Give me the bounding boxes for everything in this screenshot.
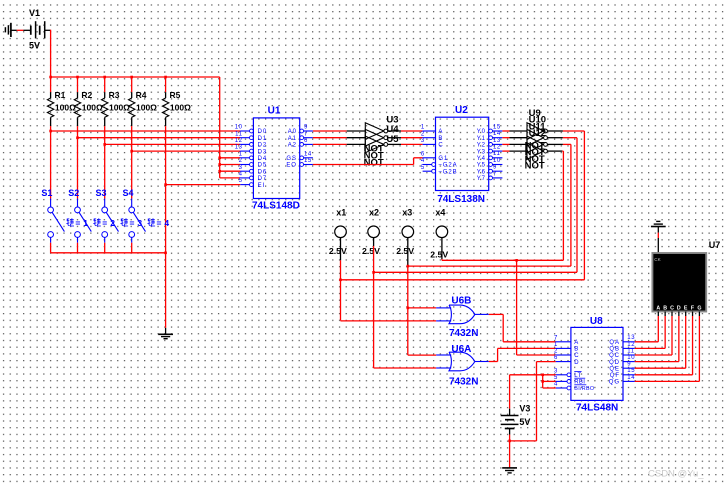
svg-text:QF: QF xyxy=(610,373,620,379)
U8 pin 1 (B) xyxy=(556,347,571,349)
U8 pin 4 (BI/RBO) xyxy=(556,387,567,389)
svg-text:S3: S3 xyxy=(96,188,107,198)
U8 pin 5 (RBI) xyxy=(556,380,567,382)
wire U1 EO toward U2 G1 xyxy=(313,164,414,166)
svg-text:100Ω: 100Ω xyxy=(82,102,103,112)
svg-text:100Ω: 100Ω xyxy=(109,102,130,112)
wire segment F vertical xyxy=(692,316,694,375)
U7 pin B stub xyxy=(664,312,666,317)
wire U2 Y3 out (red) xyxy=(502,150,509,152)
wire into NOT U5 (black) xyxy=(347,143,366,145)
switch S3 xyxy=(104,199,106,207)
svg-text:2.5V: 2.5V xyxy=(396,246,414,256)
wire node R4/S4 to U1 D3 xyxy=(132,150,241,152)
svg-text:GS: GS xyxy=(286,156,296,162)
key label glyph of S2 xyxy=(93,218,101,226)
svg-text:BI/RBO: BI/RBO xyxy=(574,386,594,392)
wire V3 minus to ground xyxy=(509,435,511,468)
wire Y2 net vertical down xyxy=(570,144,572,266)
svg-text:7: 7 xyxy=(304,131,308,137)
svg-text:D1: D1 xyxy=(258,136,267,142)
svg-text:9: 9 xyxy=(493,165,497,171)
svg-text:10: 10 xyxy=(235,125,243,131)
U1 pin 9 (A0) xyxy=(300,129,304,133)
svg-text:x3: x3 xyxy=(402,208,412,218)
svg-text:100Ω: 100Ω xyxy=(55,102,76,112)
key label glyph of S3 xyxy=(121,218,129,226)
svg-text:9: 9 xyxy=(627,362,631,368)
switch S1 xyxy=(50,199,52,207)
U7 pin E stub xyxy=(685,312,687,317)
U1 pin 11 (D1) xyxy=(240,137,249,139)
svg-text:NOT: NOT xyxy=(364,158,384,169)
svg-text:5V: 5V xyxy=(29,41,40,51)
wire U2 Y2 out (red) xyxy=(502,143,509,145)
svg-text:74LS138N: 74LS138N xyxy=(437,194,485,205)
wire U8 QD to U7 segment D xyxy=(635,361,679,363)
wire U2 Y1 out (red) xyxy=(502,137,509,139)
U2 pin 1 (A) xyxy=(423,130,436,132)
svg-text:Y2: Y2 xyxy=(477,143,486,149)
wire x2 net to U6A input B xyxy=(374,367,437,369)
junction switch bus at ground column xyxy=(164,252,167,255)
junction x1 net xyxy=(339,279,342,282)
svg-text:15: 15 xyxy=(627,368,635,374)
wire into U8 BI/RBO xyxy=(543,387,556,389)
U1 pin 7 (A1) xyxy=(300,136,304,140)
svg-text:12: 12 xyxy=(627,342,635,348)
svg-text:=: = xyxy=(157,218,162,228)
wire into V1 minus terminal xyxy=(23,29,31,31)
U1 pin 15 (EO) xyxy=(300,163,304,167)
U8 pin 7 (A) xyxy=(556,341,571,343)
probe x3 xyxy=(402,226,414,238)
svg-text:1: 1 xyxy=(554,342,558,348)
svg-text:11: 11 xyxy=(493,151,500,157)
U8 pin 13 (QA) xyxy=(623,341,635,343)
ground GND1 (left of V1, rotated) xyxy=(4,27,6,32)
svg-text:A0: A0 xyxy=(288,129,297,135)
junction top bus at R5 xyxy=(164,76,167,79)
svg-text:R2: R2 xyxy=(81,90,92,100)
junction RBI branch xyxy=(541,380,544,383)
wire into NOT U11 xyxy=(510,143,528,145)
wire R3 bottom to switch S3 xyxy=(104,126,106,198)
wire vertical feed to U1 D4-D7 xyxy=(219,77,221,178)
svg-text:QC: QC xyxy=(609,353,620,359)
svg-text:EO: EO xyxy=(286,163,296,169)
svg-text:QA: QA xyxy=(609,340,619,346)
junction +5V feed row D5 xyxy=(218,163,221,166)
junction top bus xyxy=(76,76,79,79)
wire U8 QE to U7 segment E xyxy=(635,367,686,369)
junction top bus xyxy=(103,76,106,79)
svg-text:=: = xyxy=(102,218,107,228)
inverter U4 (NOT gate) xyxy=(365,129,384,146)
svg-text:B: B xyxy=(438,136,443,142)
U2 pin 4 (~G2A) xyxy=(423,164,432,166)
wire +5V feed to U1 D7 xyxy=(220,177,241,179)
wire U6B output down xyxy=(502,314,504,341)
switch S4 xyxy=(131,199,133,207)
svg-text:x4: x4 xyxy=(435,208,445,218)
wire V3 plus up xyxy=(509,375,511,409)
svg-text:13: 13 xyxy=(235,145,243,151)
svg-text:A: A xyxy=(438,129,443,135)
svg-text:100Ω: 100Ω xyxy=(136,102,157,112)
resistor R3 xyxy=(104,77,106,92)
junction top bus xyxy=(130,76,133,79)
svg-text:9: 9 xyxy=(304,125,308,131)
svg-text:7: 7 xyxy=(554,335,558,341)
inverter U11 (NOT gate) xyxy=(527,136,544,153)
wire node R1/S1 to U1 D0 xyxy=(51,130,241,132)
wire NOT U11 out xyxy=(547,143,563,145)
wire segment C vertical xyxy=(671,316,673,355)
wire probe x1 lead (black) xyxy=(340,238,342,261)
svg-text:x1: x1 xyxy=(336,208,346,218)
svg-text:2: 2 xyxy=(554,349,558,355)
svg-text:14: 14 xyxy=(493,131,501,137)
wire U8 D stub wire xyxy=(537,361,556,363)
svg-text:QG: QG xyxy=(609,380,620,386)
U8 pin 12 (QB) xyxy=(623,347,635,349)
wire into U8 RBI xyxy=(543,380,556,382)
junction EI net at ground column xyxy=(164,183,167,186)
wire U2 Y0 out (red) xyxy=(502,130,509,132)
svg-text:D7: D7 xyxy=(258,176,267,182)
svg-text:11: 11 xyxy=(235,131,242,137)
ground GND2 (below switches) xyxy=(165,328,167,334)
svg-text:G1: G1 xyxy=(438,156,448,162)
svg-text:U1: U1 xyxy=(268,106,281,117)
resistor R5 xyxy=(165,77,167,92)
key label glyph of S4 xyxy=(148,218,156,226)
svg-text:R1: R1 xyxy=(55,90,66,100)
svg-text:D3: D3 xyxy=(258,149,267,155)
svg-text:Y4: Y4 xyxy=(477,156,486,162)
or-gate U6B 7432N xyxy=(449,305,475,324)
ground GND3 (below V3) xyxy=(502,467,517,469)
U2 pin 6 (G1) xyxy=(423,157,436,159)
svg-text:R4: R4 xyxy=(136,90,147,100)
svg-text:QB: QB xyxy=(609,347,619,353)
svg-text:6: 6 xyxy=(304,138,308,144)
svg-text:7432N: 7432N xyxy=(449,377,478,388)
U1 pin 12 (D2) xyxy=(240,143,249,145)
wire +5V feed to U1 D5 xyxy=(220,164,241,166)
U8 pin 9 (QE) xyxy=(623,367,635,369)
svg-text:~G2B: ~G2B xyxy=(438,169,457,175)
U2 pin 10 (Y5) xyxy=(489,163,493,167)
wire V3 plus to U8 LT xyxy=(510,374,556,376)
wire x3 net to U6A input A xyxy=(408,354,436,356)
inverter U9 (NOT gate) xyxy=(527,123,544,140)
wire Y3 net vertical down xyxy=(562,151,564,260)
svg-text:2.5V: 2.5V xyxy=(329,246,347,256)
wire U6A output up xyxy=(497,348,499,361)
wire NOT U9 out xyxy=(547,130,563,132)
wire segment D vertical xyxy=(678,316,680,362)
wire into NOT U3 (black) xyxy=(347,130,366,132)
svg-text:10: 10 xyxy=(627,355,635,361)
svg-text:3: 3 xyxy=(239,165,243,171)
battery V1 xyxy=(30,26,32,35)
wire GND1 to V1 (red) xyxy=(17,29,24,31)
svg-text:EI: EI xyxy=(258,183,265,189)
svg-text:6: 6 xyxy=(554,355,558,361)
wire U8 QC to U7 segment C xyxy=(635,354,672,356)
U7 pin A stub xyxy=(657,312,659,317)
wire probe x2 down to U6A input xyxy=(373,246,375,368)
junction at R2 column row D1 xyxy=(76,136,79,139)
wire NOT U4 out (black) xyxy=(388,137,401,139)
svg-text:11: 11 xyxy=(627,348,634,354)
svg-text:4: 4 xyxy=(554,382,558,388)
probe x1 xyxy=(335,226,347,238)
wire Y1 net to vertical xyxy=(563,137,577,139)
U2 pin 15 (Y0) xyxy=(489,129,493,133)
wire segment A vertical xyxy=(657,316,659,342)
U7 pin F stub xyxy=(692,312,694,317)
wire node R3/S3 to U1 D2 xyxy=(105,143,241,145)
wire GND1 to V1 (black) xyxy=(11,29,17,31)
svg-text:7432N: 7432N xyxy=(449,328,478,339)
U8 pin 6 (D) xyxy=(556,361,571,363)
U2 pin 7 (Y7) xyxy=(489,176,493,180)
wire U8 QF to U7 segment F xyxy=(635,374,693,376)
junction LT net xyxy=(541,374,544,377)
svg-text:U7: U7 xyxy=(709,240,721,250)
svg-text:14: 14 xyxy=(304,151,312,157)
svg-text:10: 10 xyxy=(493,158,501,164)
wire ground to U7 CK (red) xyxy=(657,233,659,238)
wire Y0 net vertical down xyxy=(583,131,585,280)
U1 pin 10 (D0) xyxy=(240,130,249,132)
wire into U2 G1 xyxy=(414,157,423,159)
wire U1 A1 to NOT U4 xyxy=(313,137,347,139)
svg-text:D6: D6 xyxy=(258,169,267,175)
wire probe x3 down to U6A input xyxy=(407,265,409,355)
wire probe x4 lead (black) xyxy=(441,238,443,260)
wire NOT U10 out xyxy=(547,137,563,139)
svg-text:5V: 5V xyxy=(519,417,530,427)
wire Y3 net corner xyxy=(562,150,563,152)
junction Y3 net to U8 C branch xyxy=(515,259,518,262)
svg-text:A1: A1 xyxy=(288,136,297,142)
U2 pin 2 (B) xyxy=(423,137,436,139)
ground GND4 (above U7, flipped) xyxy=(656,220,660,222)
inverter U12 (NOT gate) xyxy=(527,143,544,160)
junction at R1 column row D0 xyxy=(49,130,52,133)
svg-text:D4: D4 xyxy=(258,156,267,162)
U1 pin 3 (D6) xyxy=(240,170,249,172)
inverter U10 (NOT gate) xyxy=(527,129,544,146)
U7 pin G stub xyxy=(698,312,700,317)
inverter U5 (NOT gate) xyxy=(365,136,384,153)
svg-text:=: = xyxy=(130,218,135,228)
svg-text:12: 12 xyxy=(493,145,501,151)
wire probe x4 lead end xyxy=(441,259,443,260)
wire U8 QB to U7 segment B xyxy=(635,347,665,349)
wire ground net horizontal xyxy=(510,440,537,442)
junction x3 net xyxy=(407,265,410,268)
junction +5V feed row D4 xyxy=(218,157,221,160)
svg-text:3: 3 xyxy=(554,368,558,374)
svg-text:74LS48N: 74LS48N xyxy=(576,402,618,413)
svg-text:5: 5 xyxy=(421,165,425,171)
junction x3 net at U6B branch xyxy=(407,307,410,310)
U2 pin 5 (~G2B) xyxy=(423,170,432,172)
svg-text:U5: U5 xyxy=(386,134,399,145)
svg-text:4: 4 xyxy=(164,218,169,228)
svg-text:13: 13 xyxy=(627,335,635,341)
svg-text:5: 5 xyxy=(554,375,558,381)
wire segment B vertical xyxy=(664,316,666,348)
junction at R4 column row D3 xyxy=(130,150,133,153)
svg-text:1: 1 xyxy=(421,125,425,131)
svg-text:NOT: NOT xyxy=(525,160,545,171)
wire U6A output xyxy=(489,361,498,363)
U1 pin 5 (EI) xyxy=(240,184,249,186)
wire NOT U4 out to U2 xyxy=(401,137,423,139)
U8 pin 15 (QF) xyxy=(623,374,635,376)
wire probe x2 lead (black) xyxy=(373,238,375,246)
U2 pin 9 (Y6) xyxy=(489,169,493,173)
U2 pin 13 (Y2) xyxy=(489,143,493,147)
junction at R3 column row D2 xyxy=(103,143,106,146)
svg-text:A: A xyxy=(656,305,660,311)
wire net Y0/x1 horizontal xyxy=(341,279,585,281)
U2 pin 3 (C) xyxy=(423,143,436,145)
wire switch common bus xyxy=(51,252,166,254)
svg-text:12: 12 xyxy=(235,138,243,144)
svg-text:S2: S2 xyxy=(68,188,79,198)
U8 pin 2 (C) xyxy=(556,354,571,356)
svg-text:V3: V3 xyxy=(519,404,530,414)
svg-text:CSDN @Yu_: CSDN @Yu_ xyxy=(648,469,704,480)
U8 pin 11 (QC) xyxy=(623,354,635,356)
svg-text:7: 7 xyxy=(493,171,497,177)
svg-text:A2: A2 xyxy=(288,143,297,149)
svg-text:100Ω: 100Ω xyxy=(170,102,191,112)
svg-text:3: 3 xyxy=(421,138,425,144)
wire into NOT U10 xyxy=(510,137,528,139)
svg-text:U12: U12 xyxy=(529,128,546,139)
svg-text:15: 15 xyxy=(304,158,312,164)
svg-text:B: B xyxy=(574,347,578,353)
svg-text:D: D xyxy=(677,305,681,311)
svg-text:V1: V1 xyxy=(29,8,40,18)
wire Y2 net to vertical xyxy=(563,143,571,145)
wire R1 bottom to switch S1 xyxy=(50,126,52,198)
svg-text:Y3: Y3 xyxy=(477,149,486,155)
wire ground column to U1 EI xyxy=(166,184,241,186)
wire R2 bottom to switch S2 xyxy=(77,126,79,198)
wire U6B output xyxy=(489,313,503,315)
svg-text:U2: U2 xyxy=(455,105,468,116)
switch S2 xyxy=(77,199,79,207)
wire U8 D down to ground net xyxy=(536,362,538,441)
svg-text:U6A: U6A xyxy=(451,344,471,355)
wire EO-G1 vertical jog xyxy=(413,158,415,165)
wire into NOT U4 (black) xyxy=(347,137,366,139)
wire net Y3/x4 horizontal xyxy=(442,259,564,261)
probe x4 xyxy=(436,226,448,238)
svg-text:13: 13 xyxy=(493,138,501,144)
svg-text:2: 2 xyxy=(239,158,243,164)
wire U6A output to U8 B xyxy=(498,347,556,349)
junction V3 minus node xyxy=(508,440,511,443)
wire R4 bottom to switch S4 xyxy=(131,126,133,198)
wire into NOT U12 xyxy=(510,150,528,152)
wire NOT U5 out to U2 xyxy=(401,143,423,145)
key label glyph of S1 xyxy=(66,218,74,226)
wire probe x3 lead (black) xyxy=(407,238,409,265)
svg-text:S1: S1 xyxy=(41,188,52,198)
svg-text:QE: QE xyxy=(609,366,619,372)
svg-text:D2: D2 xyxy=(258,143,267,149)
U2 pin 11 (Y4) xyxy=(489,156,493,160)
wire U6B output to U8 A xyxy=(503,341,556,343)
svg-text:Y0: Y0 xyxy=(477,129,486,135)
wire node R2/S2 to U1 D1 xyxy=(78,137,241,139)
wire U8 QG to U7 segment G xyxy=(635,380,700,382)
wire into NOT U9 xyxy=(510,130,528,132)
seven-segment display U7 xyxy=(652,253,706,312)
svg-text:Y5: Y5 xyxy=(477,163,486,169)
U2 pin 14 (Y1) xyxy=(489,136,493,140)
svg-text:1: 1 xyxy=(239,151,243,157)
U1 pin 13 (D3) xyxy=(240,150,249,152)
U8 pin 14 (QG) xyxy=(623,380,635,382)
wire segment E vertical xyxy=(685,316,687,368)
svg-text:~G2A: ~G2A xyxy=(438,163,457,169)
svg-text:R3: R3 xyxy=(109,90,120,100)
wire R5 bottom down to ground xyxy=(165,126,167,328)
resistor R2 xyxy=(77,77,79,92)
resistor R1 xyxy=(50,77,52,92)
svg-text:=: = xyxy=(75,218,80,228)
wire NOT U3 out (black) xyxy=(388,130,401,132)
wire net Y2/x3 horizontal xyxy=(408,265,571,267)
or-gate U6A 7432N xyxy=(449,352,475,371)
probe x2 xyxy=(368,226,380,238)
wire top +5V bus xyxy=(51,76,220,78)
svg-text:R5: R5 xyxy=(170,90,181,100)
svg-text:5: 5 xyxy=(239,178,243,184)
U1 pin 6 (A2) xyxy=(300,143,304,147)
svg-text:Y1: Y1 xyxy=(477,136,486,142)
svg-text:2: 2 xyxy=(421,131,425,137)
svg-text:B: B xyxy=(663,305,667,311)
U1 pin 2 (D5) xyxy=(240,164,249,166)
U8 pin 10 (QD) xyxy=(623,361,635,363)
wire Y1 net vertical down xyxy=(576,138,578,273)
wire +5V feed to U1 D6 xyxy=(220,170,241,172)
wire Y3 net down to U8 C xyxy=(516,260,518,355)
svg-text:15: 15 xyxy=(493,124,501,130)
wire into U7 CK pin xyxy=(657,238,659,253)
U7 pin C stub xyxy=(671,312,673,317)
wire net Y1/x2 horizontal xyxy=(374,271,577,273)
wire V1 plus terminal xyxy=(45,29,51,31)
U1 pin 1 (D4) xyxy=(240,157,249,159)
svg-text:CK: CK xyxy=(654,257,661,262)
svg-text:C: C xyxy=(670,305,674,311)
wire x3 net to U6B input A xyxy=(408,307,436,309)
U1 pin 4 (D7) xyxy=(240,177,249,179)
